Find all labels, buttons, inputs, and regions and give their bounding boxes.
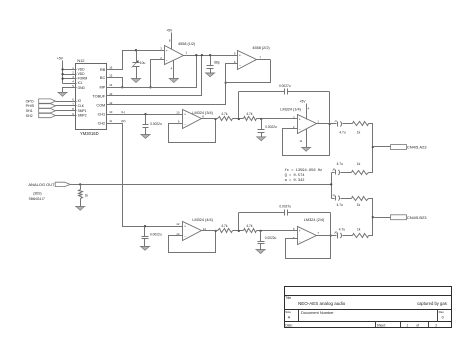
capacitor 4.7u (branch3)	[332, 198, 335, 200]
op-amp U4 LM324 (1/4)	[298, 115, 317, 134]
wire branch riser	[331, 173, 333, 199]
op-amp U2 4558 (2/2)	[238, 51, 257, 70]
IC N12 YM3016D	[76, 64, 107, 130]
resistor 1k (branch1)	[353, 122, 369, 126]
ground (N12 GND)	[58, 92, 67, 96]
svg-text:fc = 13594.956 Hz: fc = 13594.956 Hz	[285, 168, 323, 173]
wire U2 output	[257, 59, 271, 61]
wire U2 feedback rail	[226, 60, 271, 83]
ground (L2 cap)	[257, 137, 266, 141]
svg-text:MP: MP	[99, 86, 105, 90]
svg-text:+: +	[299, 229, 301, 233]
svg-text:GND: GND	[78, 86, 86, 90]
junction U4 out fb	[328, 123, 330, 125]
junction SK mid node R	[238, 230, 240, 232]
capacitor 0.0027u (L)	[284, 89, 286, 95]
wire +5V rail	[62, 70, 64, 84]
junction 68p	[209, 54, 211, 56]
svg-text:Rev: Rev	[439, 310, 445, 314]
wire SH2 to N12	[56, 115, 77, 117]
svg-text:VDD: VDD	[78, 68, 86, 72]
wire GND pin5	[63, 88, 77, 93]
wire CH1 pin10 (L)	[107, 114, 183, 116]
svg-text:+5V: +5V	[166, 29, 173, 33]
wire branch1	[343, 123, 353, 125]
resistor 4.7k (L first)	[218, 117, 233, 121]
junction U1 fb / MP rail	[149, 86, 151, 88]
ground (analog out 1k)	[76, 206, 85, 210]
svg-text:+5V: +5V	[299, 100, 306, 104]
svg-text:Sheet:: Sheet:	[377, 324, 386, 328]
title block frame	[285, 287, 452, 328]
svg-text:1k: 1k	[85, 193, 89, 197]
svg-text:0: 0	[442, 316, 444, 320]
svg-text:15: 15	[109, 73, 113, 77]
svg-text:PHIS: PHIS	[26, 104, 35, 108]
wire MP pin14 rail	[107, 56, 197, 88]
wire ANALOG OUT	[71, 184, 332, 186]
capacitor 4.7u (branch4)	[337, 233, 339, 239]
wire branch4	[343, 235, 353, 237]
svg-text:−: −	[166, 59, 168, 63]
svg-text:11: 11	[299, 139, 302, 143]
junction U3 out	[214, 118, 216, 120]
svg-text:0.0027u: 0.0027u	[279, 205, 291, 209]
svg-text:0.0022u: 0.0022u	[150, 122, 162, 126]
wire OPO to N12	[56, 101, 77, 103]
capacitor 4.7u (branch2)	[332, 172, 335, 174]
wire U4 feedback	[283, 124, 330, 156]
resistor 4.7k (L second)	[244, 117, 257, 121]
svg-text:16: 16	[109, 65, 113, 69]
svg-text:+: +	[299, 118, 301, 122]
wire COM pin12	[107, 83, 226, 105]
op-amp U1 4558 (1/2)	[165, 46, 184, 65]
ground (10u)	[132, 79, 141, 83]
svg-text:YM3016D: YM3016D	[80, 131, 99, 136]
wire TOBUF pin13	[107, 56, 202, 96]
connector CN4/5.B23	[391, 215, 407, 220]
svg-text:−: −	[184, 123, 186, 127]
capacitor 68p	[210, 56, 212, 66]
svg-text:+: +	[239, 54, 241, 58]
junction node A23	[372, 146, 374, 148]
junction SK mid node L	[238, 118, 240, 120]
svg-text:10u: 10u	[140, 61, 146, 65]
wire U6 feedback	[286, 236, 331, 259]
wire U6 output	[317, 235, 337, 237]
svg-text:CN4/5.A23: CN4/5.A23	[407, 145, 427, 150]
junction 1k shunt	[79, 183, 81, 185]
svg-text:captured by gas: captured by gas	[417, 301, 447, 306]
capacitor 0.0027u (R)	[284, 210, 286, 216]
svg-text:4.7k: 4.7k	[246, 112, 252, 116]
svg-text:NEO-AES analog audio: NEO-AES analog audio	[298, 301, 346, 306]
ground (U4 pin11)	[302, 147, 311, 151]
wire VDD pin1	[63, 69, 77, 71]
junction CH1 cap	[144, 113, 146, 115]
svg-text:0.0022u: 0.0022u	[150, 232, 162, 236]
svg-text:−: −	[299, 239, 301, 243]
wire between resistors	[233, 118, 244, 120]
U1 pin 4 ground stub	[173, 61, 175, 79]
svg-text:+: +	[184, 225, 186, 229]
wire SK rail down R	[330, 213, 332, 236]
wire U5 feedback	[169, 231, 216, 253]
resistor 4.7k (R second)	[244, 229, 257, 233]
junction MP rail to U1 out	[195, 54, 197, 56]
svg-text:4558 (2/2): 4558 (2/2)	[252, 46, 270, 50]
svg-text:ICL: ICL	[78, 81, 83, 85]
svg-text:LM324 (4/4): LM324 (4/4)	[192, 218, 213, 222]
resistor 1k (analog out shunt)	[80, 185, 82, 190]
svg-text:4.7k: 4.7k	[221, 224, 227, 228]
svg-text:1k: 1k	[357, 162, 361, 166]
svg-text:4.7u: 4.7u	[339, 227, 345, 231]
svg-text:COM: COM	[96, 103, 105, 107]
connector CN4/5.A23	[391, 145, 407, 150]
wire RB pin16	[107, 51, 165, 70]
svg-text:a = 0.342: a = 0.342	[285, 179, 305, 183]
svg-text:SH2: SH2	[26, 114, 33, 118]
wire U1 output	[184, 55, 238, 57]
svg-text:FORM: FORM	[78, 77, 88, 81]
wire SK rail down L	[329, 92, 331, 124]
svg-text:4.7u: 4.7u	[337, 203, 343, 207]
junction U6 out fb	[330, 234, 332, 236]
svg-text:0.0022u: 0.0022u	[265, 236, 277, 240]
capacitor 0.0022u (L2)	[261, 119, 263, 130]
wire branch3 to node B23	[369, 199, 373, 218]
wire to connector A23	[373, 146, 391, 148]
svg-text:LM324 (1/4): LM324 (1/4)	[280, 107, 301, 111]
svg-text:(R): (R)	[121, 119, 125, 123]
title block inner lines	[285, 295, 452, 297]
svg-text:0.0027u: 0.0027u	[279, 84, 291, 88]
svg-text:+: +	[184, 113, 186, 117]
svg-text:4.7u: 4.7u	[337, 162, 343, 166]
svg-text:N12: N12	[77, 58, 85, 63]
capacitor 4.7u (branch1)	[337, 122, 339, 127]
capacitor 10u electrolytic	[136, 51, 138, 63]
svg-text:CN4/5.B23: CN4/5.B23	[407, 215, 427, 220]
wire VDD pin2	[63, 74, 77, 76]
resistor 4.7k (R first)	[218, 229, 233, 233]
svg-text:1k: 1k	[357, 227, 361, 231]
wire branch1 to node A23	[369, 124, 373, 147]
ground (R2 cap)	[256, 250, 265, 254]
wire SK top rail R	[239, 212, 285, 214]
resistor 1k (branch4)	[353, 234, 369, 238]
svg-text:1: 1	[406, 324, 408, 328]
svg-text:(L): (L)	[121, 110, 125, 114]
wire PHIS to N12	[56, 105, 77, 107]
svg-text:2: 2	[435, 324, 437, 328]
svg-text:LM324 (2/4): LM324 (2/4)	[304, 218, 325, 222]
wire U4 output	[317, 123, 337, 125]
svg-text:CLK: CLK	[78, 104, 85, 108]
svg-text:4.7u: 4.7u	[339, 130, 345, 134]
svg-text:10: 10	[176, 110, 180, 114]
svg-text:68p: 68p	[214, 61, 220, 65]
wire SK mid node up R	[238, 213, 240, 231]
svg-text:14: 14	[109, 83, 113, 87]
wire U3 feedback	[169, 119, 216, 143]
svg-text:SH1: SH1	[26, 109, 33, 113]
svg-text:RB: RB	[100, 68, 106, 72]
svg-text:VDD: VDD	[78, 72, 86, 76]
svg-text:−: −	[299, 128, 301, 132]
wire U2 inverting input	[226, 64, 238, 83]
wire CH2 pin11 (R)	[107, 124, 183, 227]
ground (CH2 cap)	[141, 246, 150, 250]
svg-text:12: 12	[176, 222, 180, 226]
svg-text:Document Number: Document Number	[301, 310, 334, 315]
wire branch4 to node B23	[369, 218, 373, 236]
wire to U6 +in	[257, 230, 298, 232]
svg-text:Date:: Date:	[285, 324, 293, 328]
wire SK mid node up	[238, 92, 240, 119]
capacitor 0.0022u (R2)	[260, 231, 262, 242]
capacitor 0.0022u (CH2)	[144, 227, 146, 237]
op-amp U5 LM324 (4/4)	[183, 222, 202, 241]
ground (68p)	[206, 73, 215, 77]
svg-text:SMP1: SMP1	[78, 109, 87, 113]
svg-text:Q = 0.574: Q = 0.574	[285, 174, 306, 178]
op-amp U6 LM324 (2/4)	[298, 227, 317, 245]
U4 pin 11 ground stub	[306, 129, 308, 148]
svg-text:of: of	[416, 324, 419, 328]
wire branch3	[341, 198, 352, 200]
svg-text:0.0022u: 0.0022u	[265, 125, 277, 129]
svg-text:OPO: OPO	[26, 99, 34, 103]
svg-text:4.7k: 4.7k	[221, 112, 227, 116]
svg-text:4.7k: 4.7k	[246, 224, 252, 228]
junction COM to U2 fb	[225, 81, 227, 83]
svg-text:(3DS): (3DS)	[33, 191, 41, 195]
junction 0.0022u R2	[259, 230, 261, 232]
svg-text:SM64G4.I7: SM64G4.I7	[29, 197, 45, 201]
junction dots on +5V rail	[61, 68, 63, 70]
svg-text:IO: IO	[78, 99, 82, 103]
svg-text:10: 10	[109, 110, 113, 114]
svg-text:4558 (1/2): 4558 (1/2)	[178, 42, 196, 46]
resistor 1k (branch3)	[352, 197, 369, 201]
svg-text:+5V: +5V	[57, 57, 64, 61]
svg-text:1k: 1k	[357, 203, 361, 207]
junction node RB/10u	[135, 49, 137, 51]
wire U3 output	[202, 118, 218, 120]
wire U5 output	[202, 230, 218, 232]
junction TOBUF to U1 out	[201, 54, 203, 56]
junction analog out riser	[330, 183, 332, 185]
svg-text:SMP2: SMP2	[78, 114, 87, 118]
svg-text:TOBUF: TOBUF	[92, 94, 105, 98]
svg-text:CH1: CH1	[98, 113, 106, 117]
svg-text:ANALOG OUT: ANALOG OUT	[28, 182, 55, 187]
svg-text:Title: Title	[285, 296, 291, 300]
wire branch2	[341, 172, 352, 174]
wire U1 feedback to pin 2	[151, 60, 165, 88]
svg-text:CH2: CH2	[98, 122, 106, 126]
ground (U1 pin4)	[169, 79, 178, 83]
svg-text:Size: Size	[285, 310, 291, 314]
svg-text:BC: BC	[100, 76, 106, 80]
resistor 1k (branch2)	[352, 171, 369, 175]
wire branch2 to node A23	[369, 147, 373, 173]
junction 0.0022u L2	[260, 118, 262, 120]
wire ICL pin4	[63, 83, 77, 85]
capacitor 0.0022u (CH1)	[145, 115, 147, 125]
svg-text:+: +	[166, 49, 168, 53]
ground (CH1 cap)	[141, 135, 150, 139]
junction CH2 cap	[144, 225, 146, 227]
svg-text:−: −	[184, 235, 186, 239]
junction node B23	[372, 216, 374, 218]
svg-text:−: −	[239, 64, 241, 68]
svg-text:1k: 1k	[357, 130, 361, 134]
wire to U4 +in	[257, 118, 298, 120]
svg-text:11: 11	[109, 119, 112, 123]
op-amp U3 LM324 (3/4)	[183, 110, 202, 129]
wire between resistors R	[233, 230, 244, 232]
junction U5 out	[215, 230, 217, 232]
wire BC pin15	[107, 78, 123, 88]
wire SK top rail L	[239, 91, 285, 93]
wire FORM pin3	[63, 78, 77, 80]
wire SH1 to N12	[56, 110, 77, 112]
wire to connector B23	[373, 217, 391, 219]
junction BC/MP	[121, 86, 123, 88]
svg-text:A: A	[288, 315, 291, 319]
